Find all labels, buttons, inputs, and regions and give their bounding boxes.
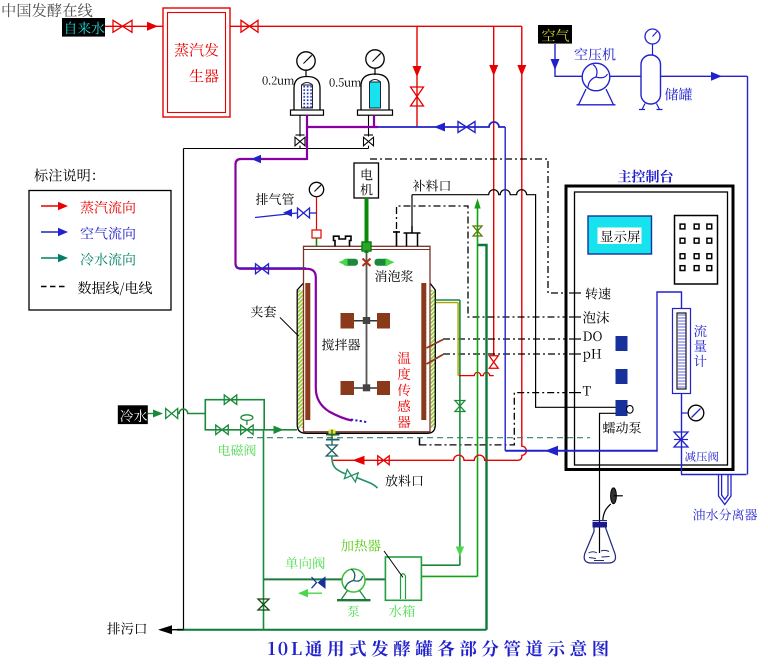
- gauge on storage tank: [645, 29, 660, 55]
- sparger air supply line: [505, 450, 658, 452]
- jacket hatch right: [431, 290, 435, 428]
- label air 空气: [538, 25, 572, 44]
- button speed: [616, 336, 628, 351]
- legend steam arrow: [41, 202, 68, 210]
- label 蠕动泵: [603, 422, 641, 434]
- label pH: [583, 349, 601, 362]
- clamp port on tank top: [334, 236, 352, 246]
- valve before solenoid: [216, 425, 229, 435]
- jacket outlet riser yellow: [457, 303, 459, 376]
- temperature cable dashed teal: [247, 437, 590, 439]
- steam main line to right: [230, 25, 522, 27]
- tank heating bar left: [305, 283, 310, 420]
- tick to T: [569, 392, 581, 394]
- flask liquid squiggles: [589, 550, 610, 560]
- tick to DO: [569, 338, 581, 340]
- label 水箱: [389, 605, 415, 617]
- filter body 0.5um: [358, 74, 393, 115]
- air compressor base: [577, 89, 616, 105]
- defoamer blade left: [339, 258, 359, 266]
- arrow air to right: [711, 72, 722, 81]
- blowdown bottom line: [177, 629, 487, 631]
- exhaust port fitting: [312, 230, 321, 246]
- motor label 电机: [361, 169, 373, 196]
- label 放料口: [386, 475, 423, 487]
- pump suction line: [264, 578, 386, 580]
- bottom port valve: [326, 445, 337, 456]
- foam sensor port: [393, 231, 400, 246]
- steam drop 3 (to discharge port): [516, 26, 526, 460]
- gauge on 0.2um filter: [297, 52, 315, 77]
- cold water to jacket: [264, 429, 297, 431]
- console inner box: [575, 192, 728, 465]
- arrow down on steam drop 1: [413, 66, 422, 77]
- leader line heater: [384, 551, 403, 578]
- valve cold water: [166, 409, 178, 419]
- hot water riser: [477, 208, 479, 576]
- air pipe bottom horizontal: [681, 474, 747, 476]
- drain stem filter1: [296, 115, 305, 136]
- cold water hop over drain line: [178, 409, 206, 413]
- leader line jacket: [280, 318, 299, 337]
- tick to pH: [569, 353, 581, 355]
- paddle blades lower: [341, 381, 391, 395]
- air line right edge down: [747, 76, 749, 474]
- legend label 蒸汽流向: [81, 201, 136, 214]
- discharge curve pipe: [332, 456, 378, 488]
- feed port fitting: [404, 226, 421, 246]
- keypad buttons: [680, 224, 712, 270]
- flow meter tube: [677, 313, 686, 389]
- water pump circle: [342, 569, 365, 592]
- diagram title: [268, 640, 608, 657]
- drain valve filter2: [364, 137, 374, 146]
- exhaust pipe blue: [255, 213, 317, 218]
- defoamer red cross: [363, 259, 371, 267]
- motor shaft green: [365, 198, 369, 253]
- label 储罐: [665, 88, 692, 101]
- paddle arm upper: [352, 320, 381, 322]
- label 转速: [586, 288, 611, 300]
- button mid: [616, 369, 628, 384]
- site watermark text: [3, 3, 93, 17]
- valve on hot water riser: [473, 226, 482, 236]
- steam line to discharge: [333, 455, 516, 460]
- label 泡沫: [583, 311, 609, 323]
- flask stopper: [593, 521, 608, 528]
- arrow to drain outlet: [158, 625, 184, 634]
- valve on air line: [458, 122, 475, 133]
- label 排污口: [107, 622, 146, 634]
- shaft coupling square: [362, 242, 371, 251]
- steam generator label: [175, 43, 219, 83]
- drain header line: [184, 146, 369, 149]
- arrow down on steam drop 2: [489, 65, 498, 76]
- air main line: [569, 75, 748, 77]
- steam drop to filters line: [416, 26, 418, 127]
- arrow down on steam drop 3: [517, 65, 526, 76]
- valve on jacket drain: [455, 401, 465, 412]
- heater element in tank: [401, 574, 406, 599]
- arrow air to sparger: [545, 446, 558, 456]
- legend dashed line: [41, 286, 67, 288]
- legend label 空气流向: [81, 227, 136, 240]
- steam valve on drop2: [489, 356, 498, 369]
- label 油水分离器: [693, 509, 757, 521]
- purple drop from 0.5um filter: [373, 115, 375, 127]
- feed line wavy to console: [412, 190, 616, 408]
- arrow steam into generator: [147, 22, 158, 31]
- feed line riser: [411, 195, 413, 226]
- arrow on purple elbow: [251, 155, 261, 163]
- label 主控制台: [618, 170, 673, 183]
- paddle arm lower: [352, 387, 381, 389]
- jacket shell: [297, 283, 435, 433]
- label DO: [583, 331, 602, 341]
- valve on pipe to tank: [256, 264, 269, 274]
- label 冷水: [118, 405, 148, 424]
- air riser to filters: [504, 127, 506, 451]
- pressure reducing valve 减压阀: [674, 432, 688, 447]
- label 单向阀: [286, 557, 325, 570]
- purple header between filters: [306, 126, 378, 128]
- foam sensor dashed line: [397, 206, 567, 317]
- solenoid bypass loop: [205, 400, 264, 430]
- filter cartridge 0.5um: [370, 80, 381, 109]
- defoamer blade right: [375, 258, 395, 266]
- label 加热器: [341, 539, 381, 551]
- legend title 标注说明: [34, 169, 95, 182]
- steam drop 2 (jacket circuit): [493, 26, 495, 356]
- water tank box: [385, 557, 421, 600]
- pH sensor tick: [427, 355, 444, 365]
- drain valve filter1: [295, 137, 305, 146]
- tank top inner line: [304, 249, 431, 251]
- valve on steam drop 1: [411, 87, 424, 106]
- jacket outlet riser green: [459, 300, 461, 565]
- filter cartridge 0.2um: [302, 83, 313, 109]
- arrow below check valve: [298, 589, 322, 597]
- tick to 泡沫: [569, 316, 581, 318]
- valve on discharge steam: [378, 456, 390, 465]
- valve on down pipe: [258, 599, 269, 610]
- steam pipe from tap water: [105, 25, 163, 27]
- gauge on 0.5um filter: [366, 50, 384, 75]
- filter body 0.2um: [291, 77, 324, 116]
- pressure gauge tank top: [309, 182, 323, 230]
- peristaltic pump button: [616, 400, 634, 416]
- display screen 显示屏: [588, 216, 652, 254]
- DO dashed line: [443, 338, 566, 340]
- bypass valve top: [224, 395, 237, 405]
- discharge valve: [344, 469, 358, 481]
- speed sensor dashed line: [370, 159, 566, 293]
- legend label 冷水流向: [81, 253, 136, 266]
- left drain down-line: [183, 149, 185, 630]
- label 补料口: [413, 180, 450, 192]
- label 电磁阀: [219, 444, 256, 456]
- drain stem filter2: [364, 115, 373, 136]
- arrow air down: [551, 59, 560, 70]
- blue overlay on pipe to tank: [236, 267, 306, 269]
- tick to 转速: [569, 292, 581, 294]
- flow meter bottom pipe: [681, 394, 683, 475]
- arrow up on hot water riser: [474, 199, 480, 209]
- arrow air flows left: [434, 123, 445, 132]
- label 消泡浆: [375, 270, 413, 282]
- bottom port fitting: [326, 430, 340, 445]
- legend box: [29, 191, 171, 311]
- storage tank vessel: [639, 55, 663, 110]
- label 温度传感器 vertical: [398, 352, 411, 364]
- console outer box: [566, 186, 733, 470]
- label 夹套: [251, 306, 276, 318]
- solenoid loop down pipe: [263, 430, 265, 630]
- air line to filters (blue): [378, 122, 505, 127]
- flow meter outer: [673, 309, 691, 394]
- flow meter top pipe: [657, 292, 682, 451]
- solenoid valve 电磁阀: [241, 415, 254, 435]
- oil-water separator U-tube: [719, 475, 732, 505]
- check valve 单向阀: [312, 576, 326, 589]
- arrow cold water to jacket: [274, 426, 284, 434]
- tank heating bar right: [421, 283, 426, 420]
- pump to flask line: [600, 413, 617, 553]
- label 泵: [348, 605, 360, 617]
- exhaust valve: [298, 208, 310, 218]
- jacket outlet pipe pair: [435, 300, 460, 303]
- valve on tap water line: [113, 20, 132, 32]
- label 空压机: [575, 48, 616, 61]
- pH dashed line: [443, 353, 566, 355]
- label 排气管: [256, 193, 294, 205]
- label tap-water 自来水: [62, 18, 105, 37]
- motor box: [354, 163, 379, 198]
- air compressor circle: [582, 63, 610, 91]
- jacket hatch left: [298, 290, 303, 428]
- tank body: [304, 246, 431, 431]
- legend air arrow: [41, 228, 68, 236]
- agitator shaft: [366, 253, 368, 390]
- label 0.5um: [330, 78, 362, 87]
- steam generator box: [163, 8, 230, 117]
- label 0.2um: [263, 76, 295, 85]
- valve right of generator: [241, 20, 258, 32]
- keypad panel: [675, 216, 718, 285]
- arrow cold water in: [148, 410, 163, 418]
- purple drop from 0.2um filter: [306, 115, 308, 160]
- label 搅拌器: [322, 339, 360, 351]
- arrow on exhaust pipe: [283, 209, 292, 217]
- legend label 数据线/电线: [78, 281, 152, 295]
- paddle blades upper: [341, 313, 391, 329]
- arrow steam to port: [353, 456, 365, 465]
- label T: [583, 386, 591, 396]
- steam tee into water line: [459, 372, 494, 375]
- console gauge: [682, 405, 704, 421]
- sparger outlet dotted: [351, 420, 367, 423]
- label 流量计 vertical: [694, 325, 707, 338]
- DO sensor tick: [427, 340, 444, 349]
- label 减压阀: [685, 451, 718, 462]
- sparger pipe inside tank: [304, 269, 352, 421]
- legend water arrow: [41, 254, 68, 262]
- green arrow down to water tank: [456, 547, 464, 557]
- hot water riser to tank: [421, 575, 477, 577]
- jacket return to water tank: [421, 564, 460, 566]
- drain branch elbow: [478, 245, 487, 630]
- flask neck and body: [584, 528, 615, 564]
- air inlet drop line: [555, 44, 569, 76]
- pump stand: [337, 591, 371, 601]
- purple elbow to tank: [236, 159, 308, 269]
- flask feed tube curved: [603, 504, 611, 520]
- T dashed line: [420, 393, 567, 446]
- tube pinch clamp: [611, 488, 623, 504]
